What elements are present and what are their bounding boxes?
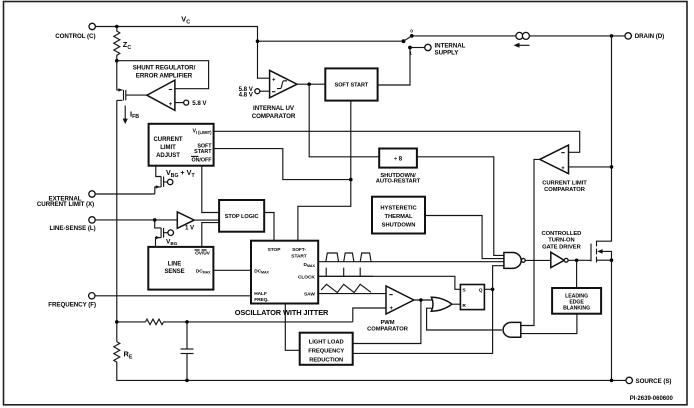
wire source rail down [611, 260, 613, 380]
svg-text:0: 0 [410, 29, 413, 35]
box LIGHT LOAD FREQUENCY REDUCTION [300, 333, 353, 365]
wire UV comparator output to soft start [297, 83, 325, 85]
wire stop logic output down to oscillator STOP [264, 213, 274, 241]
svg-text:OSCILLATOR WITH JITTER: OSCILLATOR WITH JITTER [235, 308, 329, 317]
box SOFT START [325, 68, 377, 100]
svg-text:Q: Q [479, 288, 483, 294]
wire drain rail top [412, 35, 625, 37]
wire VC rail from CONTROL to UV-comparator corner [95, 27, 257, 42]
pin SOURCE (S) [626, 377, 671, 385]
svg-text:÷ 8: ÷ 8 [394, 157, 403, 163]
svg-text:STOP LOGIC: STOP LOGIC [225, 214, 259, 220]
box STOP LOGIC [219, 200, 264, 232]
latch S-R [460, 285, 484, 310]
svg-text:HYSTERETIC: HYSTERETIC [380, 206, 417, 212]
current source symbol [514, 32, 530, 47]
wire DMAX output to NAND input 3 [318, 261, 504, 263]
wire VC node to auto-restart switch [258, 40, 404, 42]
junction at C pin / ZC top [115, 25, 119, 29]
svg-text:FREQUENCY: FREQUENCY [308, 349, 344, 355]
pin INTERNAL SUPPLY [410, 42, 466, 56]
svg-text:LIGHT LOAD: LIGHT LOAD [309, 340, 344, 346]
wire VC down to UV comparator + input [258, 41, 270, 78]
gate NAND 4-input [504, 253, 525, 269]
svg-text:STOP: STOP [268, 247, 282, 253]
svg-text:ON/OFF: ON/OFF [191, 158, 212, 164]
wire left rail mid (down to RE) [116, 100, 118, 341]
box LINE SENSE [148, 247, 213, 290]
svg-text:ERROR AMPLIFIER: ERROR AMPLIFIER [136, 73, 193, 80]
resistor ZC [114, 27, 132, 61]
svg-text:START: START [194, 149, 212, 155]
terminal 5.8 V reference [175, 100, 208, 107]
junction MOSFET source [610, 258, 614, 262]
svg-text:SHUNT REGULATOR/: SHUNT REGULATOR/ [133, 65, 196, 72]
wire current limit comparator + input to drain rail [569, 166, 612, 168]
wire OR output to latch R [452, 303, 461, 305]
wire soft start output to switch throw 1 [378, 48, 410, 86]
box LEADING EDGE BLANKING [552, 288, 601, 314]
terminal 5.8V/4.8V threshold [239, 86, 270, 99]
wire L pin to 1V comparator [95, 219, 177, 221]
svg-text:LIMIT: LIMIT [160, 145, 176, 151]
svg-text:4.8 V: 4.8 V [239, 92, 254, 99]
svg-text:SHUTDOWN: SHUTDOWN [382, 222, 416, 228]
pin DRAIN (D) [625, 33, 664, 41]
svg-text:R: R [462, 303, 466, 309]
svg-text:HALF: HALF [254, 291, 267, 297]
wire thermal shutdown output to NAND input 2 [425, 216, 504, 259]
svg-text:ADJUST: ADJUST [156, 153, 180, 159]
svg-text:CURRENT LIMIT: CURRENT LIMIT [542, 180, 587, 186]
wire current limit comparator output down to AND gate [521, 159, 540, 325]
wire PWM + input from RE node [353, 308, 386, 322]
junction cap top [185, 320, 189, 324]
pin LINE-SENSE (L) [50, 217, 96, 232]
box CURRENT LIMIT ADJUST [149, 124, 214, 166]
svg-text:LINE: LINE [168, 261, 182, 267]
wire drain rail down to output MOSFET [597, 36, 612, 241]
svg-text:SUPPLY: SUPPLY [435, 50, 460, 57]
wire left rail upper (to shunt MOSFET drain) [117, 61, 123, 90]
junction drain rail [610, 34, 614, 38]
buffer gate driver [551, 252, 568, 267]
capacitor [181, 322, 194, 381]
svg-text:SAW: SAW [304, 292, 315, 298]
pin FREQUENCY (F) [48, 293, 96, 309]
svg-text:+: + [169, 102, 173, 108]
pin CONTROL (C) [55, 23, 95, 40]
svg-text:CONTROLLED: CONTROLLED [542, 231, 582, 237]
wire left rail bottom + source rail [117, 363, 626, 380]
svg-text:1: 1 [409, 51, 412, 57]
svg-text:SENSE: SENSE [164, 269, 184, 275]
wire 1V comparator output to stop logic [194, 219, 219, 221]
wire OV/UV from line sense up to stop logic [202, 223, 219, 247]
transistor shunt-regulator MOSFET [117, 88, 147, 100]
svg-text:DRAIN (D): DRAIN (D) [635, 33, 664, 40]
svg-text:OV/UV: OV/UV [195, 251, 211, 257]
junction VC / switch line [256, 39, 260, 43]
waveform CLOCK pulses [319, 268, 374, 277]
pin EXTERNAL CURRENT LIMIT (X) [37, 191, 95, 208]
gate OR (reset) [431, 297, 452, 311]
svg-text:CLOCK: CLOCK [298, 275, 315, 281]
svg-text:SOFT-: SOFT- [292, 247, 306, 253]
junction cap bottom [185, 379, 189, 383]
wire light load lower port to latch Q [353, 289, 493, 353]
svg-text:+: + [389, 306, 393, 312]
junction L line / VBG MOSFET [153, 218, 157, 222]
svg-text:INTERNAL UV: INTERNAL UV [253, 105, 295, 112]
comparator INTERNAL UV [252, 70, 297, 120]
wire F pin to oscillator HALF FREQ [95, 295, 251, 297]
junction RE node [115, 320, 119, 324]
junction source rail / bottom rail [610, 379, 614, 383]
svg-text:FREQUENCY (F): FREQUENCY (F) [48, 301, 96, 308]
wire divide-by-8 output to NAND input 1 [417, 157, 504, 256]
wire VI(LIMIT) to current limit comparator inverting input [214, 131, 580, 152]
svg-text:GATE DRIVER: GATE DRIVER [542, 244, 581, 250]
svg-text:PWM: PWM [380, 320, 394, 326]
wire E-node row (RE / cap / PWM) [117, 321, 353, 323]
svg-text:+: + [561, 166, 565, 172]
svg-text:BLANKING: BLANKING [563, 305, 590, 311]
box OSCILLATOR WITH JITTER [235, 241, 329, 317]
switch auto-restart (0/1) [402, 29, 414, 57]
svg-text:CURRENT: CURRENT [154, 137, 183, 143]
wire DCMAX line-sense to oscillator [213, 269, 251, 271]
svg-text:START: START [291, 254, 307, 260]
svg-text:COMPARATOR: COMPARATOR [544, 187, 586, 193]
svg-text:FREQ.: FREQ. [254, 297, 268, 303]
wire light load upper port to PWM output node [353, 300, 421, 344]
junction drain / current limit comparator [610, 165, 614, 169]
wire SOFT START (from current limit adjust to soft-start net) [214, 149, 351, 180]
waveform DMAX pulses [326, 253, 371, 262]
svg-text:CURRENT LIMIT (X): CURRENT LIMIT (X) [37, 201, 94, 208]
svg-text:SOFT START: SOFT START [335, 83, 369, 89]
wire ON/OFF down to stop logic [202, 166, 219, 213]
svg-text:REDUCTION: REDUCTION [309, 357, 343, 363]
comparator PWM [367, 286, 414, 333]
current arrow IFB [123, 106, 140, 125]
svg-text:THERMAL: THERMAL [385, 214, 413, 220]
wire driver node down to leading edge blanking [576, 260, 578, 288]
wire oscillator bottom to light load box [285, 304, 299, 351]
junction PWM output [419, 298, 423, 302]
svg-text:1 V: 1 V [185, 224, 195, 231]
wire X pin to MOSFET source [95, 193, 155, 195]
svg-text:COMPARATOR: COMPARATOR [367, 327, 409, 333]
gate AND (reversed, current-limit reset) [503, 322, 521, 337]
svg-text:INTERNAL: INTERNAL [435, 42, 466, 49]
box divide-by-8 [376, 149, 421, 185]
junction Q node [491, 288, 495, 292]
transistor output MOSFET [591, 241, 612, 263]
svg-text:TURN-ON: TURN-ON [548, 238, 574, 244]
label CONTROLLED TURN-ON GATE DRIVER [542, 231, 582, 251]
label SHUNT REGULATOR / ERROR AMPLIFIER [133, 65, 196, 80]
wire PWM output to OR gate [414, 299, 432, 301]
wire latch Q output [484, 288, 492, 290]
svg-text:AUTO-RESTART: AUTO-RESTART [376, 179, 421, 185]
wire NAND output to gate driver [525, 259, 551, 261]
junction soft-start net / current limit adjust line [349, 178, 353, 182]
svg-text:+: + [272, 78, 276, 84]
wire AND output up to OR lower input [427, 308, 502, 330]
transistor VBG+VT MOSFET (external current limit) [155, 166, 196, 194]
svg-text:5.8 V: 5.8 V [192, 100, 207, 107]
wire SAW output to PWM comparator - input [318, 293, 386, 295]
wire soft start bottom to oscillator SOFT-START input [298, 101, 351, 241]
transistor VBG MOSFET (line sense) [155, 220, 178, 247]
svg-text:PI-2639-060600: PI-2639-060600 [630, 396, 674, 402]
resistor RE [114, 342, 133, 363]
svg-text:COMPARATOR: COMPARATOR [252, 113, 296, 120]
box HYSTERETIC THERMAL SHUTDOWN [372, 197, 425, 234]
wire driver output to MOSFET gate [568, 259, 591, 261]
svg-text:CONTROL (C): CONTROL (C) [55, 33, 95, 40]
svg-text:SOURCE (S): SOURCE (S) [636, 378, 672, 385]
comparator CURRENT LIMIT [540, 145, 588, 193]
junction UV output [307, 82, 311, 86]
wire UV output down to divide-by-8 [309, 84, 379, 157]
wire Q node up to NAND input 4 [493, 266, 504, 290]
waveform SAW [321, 284, 371, 292]
svg-text:LINE-SENSE (L): LINE-SENSE (L) [50, 225, 96, 232]
comparator 1 V buffer [177, 212, 195, 232]
wire CLOCK output to S input of latch [318, 276, 460, 289]
junction ZC bottom / shunt loop [115, 59, 119, 63]
wire LEB output down to AND input 2 [521, 314, 577, 334]
op-amp shunt regulator / error amplifier [147, 80, 175, 110]
resistor jitter (horizontal) [146, 319, 164, 325]
junction driver output [575, 259, 579, 263]
svg-text:VI (LIMIT): VI (LIMIT) [192, 129, 212, 135]
wire shunt regulator feedback loop (top/right of label) [117, 61, 209, 89]
